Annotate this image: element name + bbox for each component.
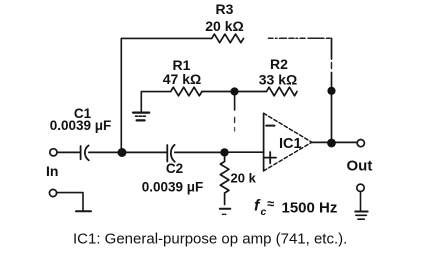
wire op-amp output to Out terminal [312,141,357,143]
svg-text:R3: R3 [216,1,234,17]
output terminal Out [357,140,364,147]
svg-text:20 k: 20 k [231,171,257,186]
wire node down toward op-amp minus (fading) [234,95,236,110]
node B junction [220,148,228,156]
svg-text:47 kΩ: 47 kΩ [163,71,201,87]
capacitor C1 [81,146,89,161]
svg-text:C2: C2 [166,161,183,176]
svg-text:0.0039 μF: 0.0039 μF [142,179,204,194]
wire input to C1 [58,151,80,153]
wire node A to C2 [126,151,167,153]
ground (output, 3-bar) [355,212,368,220]
svg-text:R2: R2 [270,56,288,72]
wire C1 to node A [89,151,122,153]
ground (input, single bar) [76,210,91,212]
output terminal (lower) [357,184,364,191]
label fc ~= 1500 Hz [254,196,337,218]
wire right vertical top [331,38,333,59]
op-amp IC1 triangle [263,113,265,171]
svg-text:1500 Hz: 1500 Hz [282,199,338,216]
svg-text:Out: Out [347,157,373,174]
resistor R3 [212,34,244,43]
wire R3 row left [121,37,211,39]
node A junction [118,148,127,157]
svg-text:In: In [46,163,58,179]
wire lower input terminal to ground [57,193,83,211]
resistor R2 [267,87,298,96]
node R2 / feedback junction [327,87,335,95]
wire R1 row left corner [141,92,170,112]
svg-text:0.0039 μF: 0.0039 μF [50,118,112,133]
wire node to R2 [239,91,267,93]
svg-text:IC1: General-purpose op amp (7: IC1: General-purpose op amp (741, etc.). [73,230,347,247]
wire R3 to right vertical (faint dash-dot) [269,37,331,39]
wire node B to op-amp plus input [229,151,264,153]
svg-text:≈: ≈ [267,196,274,211]
svg-text:c: c [261,206,267,218]
op-amp minus input marker [266,125,274,127]
svg-text:33 kΩ: 33 kΩ [259,71,297,87]
input terminal In (upper) [50,149,57,156]
ground (under 20 k, faded) [220,209,231,215]
wire node A up to R3 row [120,38,122,152]
ground (under R1 left) [133,113,149,121]
svg-text:IC1: IC1 [279,136,302,152]
resistor 20 k (vertical) [220,157,229,205]
resistor R1 [171,87,202,96]
wire R1 to node [202,91,235,93]
node output junction [327,139,336,148]
capacitor C2 [167,145,175,162]
wire C2 to node B [175,151,225,153]
wire lower output terminal to ground [360,192,362,210]
svg-text:20 kΩ: 20 kΩ [205,18,243,34]
node R1/R2 junction [230,87,238,95]
op-amp plus input marker [265,152,277,163]
input terminal In (lower) [49,189,56,196]
